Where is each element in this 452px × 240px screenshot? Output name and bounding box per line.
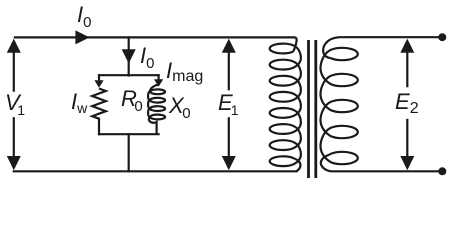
transformer secondary winding: [321, 48, 358, 164]
label V1: [5, 92, 25, 114]
wire secondary bottom lead: [321, 155, 441, 171]
inductor X0 top joiner: [150, 85, 158, 94]
inductor X0 coil: [148, 89, 165, 119]
primary bottom exit: [295, 159, 301, 172]
wire inductor top lead: [158, 75, 160, 80]
arrowhead E1 up: [222, 39, 236, 53]
wire shunt stem bottom: [128, 134, 130, 171]
transformer primary winding: [270, 44, 301, 167]
label I0 (shunt): [140, 45, 154, 67]
arrowhead V1 up: [7, 39, 21, 53]
transformer core line 1: [307, 40, 310, 178]
wire bottom rail: [14, 170, 297, 172]
label Imag: [166, 60, 203, 82]
resistor R0 zigzag: [92, 89, 106, 119]
arrowhead E2 up: [400, 39, 414, 53]
wire resistor bottom lead: [98, 119, 100, 135]
wire top rail into primary: [14, 37, 297, 51]
wire shunt top bar: [99, 74, 159, 76]
wire secondary top lead: [323, 37, 441, 58]
label E1: [218, 92, 238, 114]
voltage arrow E2 line: [406, 49, 408, 159]
inductor X0 bottom lead: [149, 116, 157, 134]
label E2: [395, 91, 419, 113]
current arrow I0 on rail: [75, 30, 89, 44]
transformer core line 2: [314, 40, 317, 178]
current arrow I0 on stem: [122, 49, 136, 63]
wire shunt bottom bar: [99, 133, 159, 135]
current arrow Iw: [94, 80, 103, 88]
label R0: [121, 88, 143, 110]
voltage arrow E1 line: [228, 49, 230, 159]
arrowhead V1 down: [7, 156, 21, 170]
current arrow Imag: [154, 79, 163, 87]
arrowhead E2 down: [400, 156, 414, 170]
wire resistor top lead: [98, 75, 100, 80]
voltage arrow V1 line: [13, 49, 15, 159]
terminal dot bottom right: [438, 167, 446, 175]
label X0: [169, 95, 191, 117]
arrowhead E1 down: [222, 156, 236, 170]
wire shunt stem top: [128, 37, 130, 75]
label I0 (top): [77, 4, 91, 26]
terminal dot top right: [438, 33, 446, 41]
label Iw: [71, 91, 87, 113]
